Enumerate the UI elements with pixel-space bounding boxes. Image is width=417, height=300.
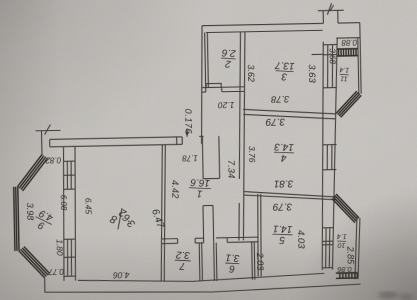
room 6 right wall <box>251 242 254 280</box>
room 8 right wall <box>159 145 165 282</box>
bottom wall inner line <box>78 273 325 283</box>
room 1 label 1/16.6 <box>188 176 211 199</box>
balcony 10 bottom hatched band <box>336 273 357 279</box>
balcony 11 chamfer window band <box>336 91 362 117</box>
outer wall: upper block top wall left of chimney <box>202 23 323 25</box>
corridor right wall upper segment <box>238 91 242 179</box>
balcony 11 hatched door band <box>337 49 358 56</box>
bottom wall outer line <box>45 284 361 295</box>
outer wall: top wall right of chimney <box>338 22 360 24</box>
bay break mark <box>36 129 61 131</box>
room 2 right wall <box>239 32 242 92</box>
window band room 4 <box>322 145 337 170</box>
bay bottom stub <box>44 278 46 293</box>
bay bottom chamfer window band <box>19 246 50 278</box>
wall room 9 / room 8 with window bands <box>61 146 77 280</box>
bay top chamfer window band <box>17 154 48 191</box>
wall between rooms 3 and 4 <box>243 108 336 116</box>
bay window room 9: top wall stub <box>41 131 43 154</box>
room 2 bottom wall with door opening <box>202 87 206 89</box>
main right wall outer faces <box>318 42 328 270</box>
room 8 label 8/26.3 <box>108 206 138 231</box>
chimney shaft <box>322 11 324 24</box>
door line in gap <box>243 179 244 203</box>
room 6 left wall <box>213 243 216 281</box>
window band room 5 <box>321 228 334 268</box>
outer wall: right wall of balcony 11 <box>360 23 361 94</box>
window band room 3 to balcony 11 <box>311 45 338 88</box>
lower block top wall <box>50 137 182 140</box>
chimney break mark <box>327 3 334 15</box>
wall between rooms 4 and 5 <box>244 190 337 199</box>
room 2 label 2/2.6 <box>220 46 237 69</box>
bottom right corner smudges <box>378 292 413 300</box>
room 2 left wall lines <box>205 33 206 88</box>
corridor bottom wall segments <box>162 238 178 240</box>
room 5 left wall <box>257 194 260 277</box>
balcony 10 right wall <box>354 217 358 280</box>
outer wall: upper block left wall <box>199 26 204 144</box>
room 6 label 6/3.1 <box>225 251 240 274</box>
room 4 label 4/14.3 <box>273 141 294 164</box>
balcony 11 top wall <box>336 37 360 39</box>
room 2 door leaf <box>206 83 221 87</box>
bay left window band <box>14 187 19 251</box>
room 9 label 9/4.9 <box>31 206 57 234</box>
corridor right wall lower segment <box>238 203 240 241</box>
room 7 label 7/3.2 <box>174 249 191 272</box>
duct column below upper block <box>201 136 204 178</box>
duct column in corridor <box>202 206 205 243</box>
balcony 10 label 10/1.4 <box>336 232 346 248</box>
balcony 10 chamfer window band <box>332 194 359 224</box>
room 7 walls <box>198 243 201 281</box>
inner face of top wall <box>206 30 323 32</box>
balcony 11 label 11/1.4 <box>339 66 350 82</box>
room 5 label 5/14.1 <box>272 223 293 246</box>
room 3 label 3/13.7 <box>274 59 295 82</box>
